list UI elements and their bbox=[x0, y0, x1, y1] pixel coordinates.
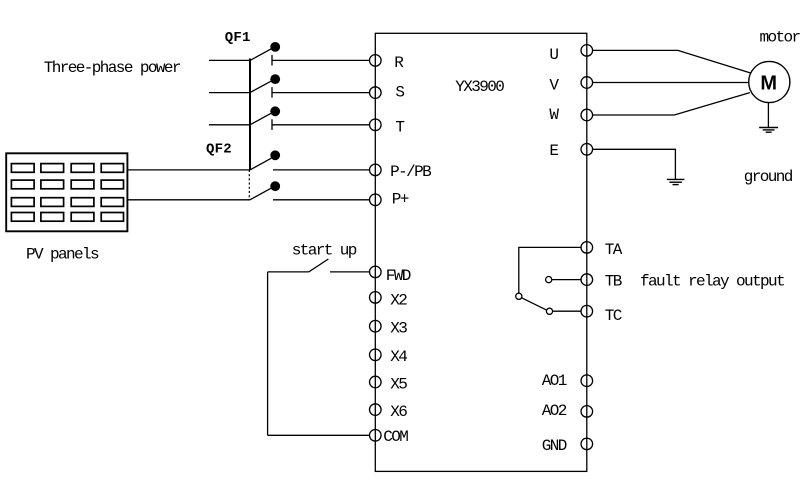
breaker QF1 tie bar bbox=[249, 59, 251, 170]
PV panel array bbox=[6, 153, 127, 231]
svg-text:TB: TB bbox=[605, 272, 622, 290]
svg-text:T: T bbox=[395, 119, 404, 137]
svg-text:X5: X5 bbox=[390, 376, 407, 394]
svg-text:S: S bbox=[395, 84, 404, 102]
breaker QF1 pole 3 blade bbox=[250, 113, 272, 125]
svg-text:QF1: QF1 bbox=[225, 30, 251, 46]
breaker QF2 pole 2 contact dot bbox=[270, 181, 280, 191]
terminal X5 bbox=[370, 376, 382, 388]
motor ground lead bbox=[767, 103, 769, 128]
breaker QF1 pole 2 fixed contact tick bbox=[271, 87, 273, 98]
svg-text:COM: COM bbox=[383, 428, 408, 446]
svg-text:TC: TC bbox=[605, 307, 622, 325]
inverter U1 box YX3900 bbox=[375, 33, 587, 471]
svg-text:start up: start up bbox=[292, 242, 357, 260]
wire PV positive to QF2 bbox=[127, 169, 250, 171]
svg-text:M: M bbox=[760, 73, 777, 95]
wire start circuit vertical bbox=[267, 272, 269, 435]
terminal X4 bbox=[370, 349, 382, 361]
terminal X6 bbox=[370, 404, 382, 416]
relay wire TC contact to terminal bbox=[553, 310, 581, 312]
svg-text:GND: GND bbox=[542, 437, 567, 455]
svg-text:P-/PB: P-/PB bbox=[390, 163, 431, 181]
breaker QF1 pole 1 fixed contact tick bbox=[271, 55, 273, 66]
breaker QF1 pole 1 contact dot bbox=[270, 42, 280, 52]
wire QF2 pole 2 to terminal P+ bbox=[273, 199, 370, 201]
terminal U bbox=[581, 45, 593, 57]
wire V to motor bbox=[593, 82, 749, 84]
wire start circuit to COM bbox=[268, 434, 370, 436]
wire phase L2 input bbox=[209, 92, 250, 94]
wire start switch to FWD bbox=[330, 271, 370, 273]
svg-text:ground: ground bbox=[744, 168, 793, 186]
relay wire TB contact to terminal bbox=[552, 279, 581, 281]
breaker QF1 pole 2 contact dot bbox=[270, 74, 280, 84]
breaker QF1 pole 3 contact dot bbox=[270, 106, 280, 116]
relay pivot contact bbox=[516, 293, 522, 299]
terminal T bbox=[370, 119, 382, 131]
svg-text:P+: P+ bbox=[392, 191, 409, 209]
terminal TA bbox=[581, 242, 593, 254]
svg-text:U: U bbox=[549, 46, 558, 64]
wire QF1 pole 3 to terminal T bbox=[272, 124, 370, 126]
svg-text:X2: X2 bbox=[390, 291, 407, 309]
terminal TB bbox=[581, 274, 593, 286]
svg-text:fault relay output: fault relay output bbox=[640, 272, 784, 290]
svg-text:TA: TA bbox=[605, 241, 623, 259]
breaker QF1 pole 2 blade bbox=[250, 81, 272, 93]
breaker QF2 tie bar dashed bbox=[248, 170, 250, 200]
svg-text:AO1: AO1 bbox=[542, 372, 567, 390]
terminal FWD bbox=[370, 266, 382, 278]
terminal X2 bbox=[370, 292, 382, 304]
wire PV negative to QF2 bbox=[127, 199, 250, 201]
wire phase L1 input bbox=[209, 59, 250, 61]
svg-text:X3: X3 bbox=[390, 320, 407, 338]
breaker QF2 pole 1 contact dot bbox=[270, 150, 280, 160]
svg-text:X6: X6 bbox=[390, 403, 407, 421]
terminal V bbox=[581, 77, 593, 89]
relay TB contact bbox=[546, 277, 552, 283]
svg-text:motor: motor bbox=[760, 29, 801, 47]
motor ground symbol bbox=[759, 128, 778, 133]
breaker QF2 pole 1 blade bbox=[250, 158, 271, 170]
relay blade to TC bbox=[522, 298, 547, 310]
terminal E bbox=[581, 144, 593, 156]
relay TC contact bbox=[546, 308, 552, 314]
svg-text:AO2: AO2 bbox=[542, 402, 567, 420]
terminal TC bbox=[581, 305, 593, 317]
wire QF2 pole 1 to terminal P-/PB bbox=[273, 169, 370, 171]
terminal GND bbox=[581, 438, 593, 450]
terminal P-/PB bbox=[370, 164, 382, 176]
svg-text:E: E bbox=[549, 142, 558, 160]
terminal R bbox=[370, 55, 382, 67]
svg-text:FWD: FWD bbox=[386, 267, 411, 285]
terminal S bbox=[370, 87, 382, 99]
start switch blade bbox=[309, 259, 329, 272]
svg-text:PV panels: PV panels bbox=[26, 245, 99, 263]
breaker QF2 pole 2 blade bbox=[250, 188, 271, 200]
wire phase L3 input bbox=[209, 124, 250, 126]
svg-text:Three-phase power: Three-phase power bbox=[44, 59, 181, 77]
svg-text:QF2: QF2 bbox=[206, 141, 232, 157]
wire QF1 pole 2 to terminal S bbox=[272, 92, 370, 94]
terminal W bbox=[581, 109, 593, 121]
wire E to ground bbox=[593, 149, 676, 179]
terminal AO2 bbox=[581, 406, 593, 418]
svg-text:YX3900: YX3900 bbox=[455, 78, 504, 96]
terminal COM bbox=[370, 430, 382, 442]
terminal X3 bbox=[370, 320, 382, 332]
relay wire TA to pivot bbox=[519, 247, 581, 293]
earth ground symbol bbox=[667, 179, 685, 184]
wire QF1 pole 1 to terminal R bbox=[272, 59, 370, 61]
terminal AO1 bbox=[581, 375, 593, 387]
breaker QF1 pole 3 fixed contact tick bbox=[271, 119, 273, 130]
wire start switch left lead bbox=[268, 271, 309, 273]
breaker QF1 pole 1 blade bbox=[250, 49, 272, 61]
wire U to motor bbox=[593, 50, 751, 73]
motor M1 bbox=[749, 61, 790, 102]
terminal P+ bbox=[370, 194, 382, 206]
wire W to motor bbox=[593, 93, 750, 115]
svg-text:X4: X4 bbox=[390, 348, 407, 366]
